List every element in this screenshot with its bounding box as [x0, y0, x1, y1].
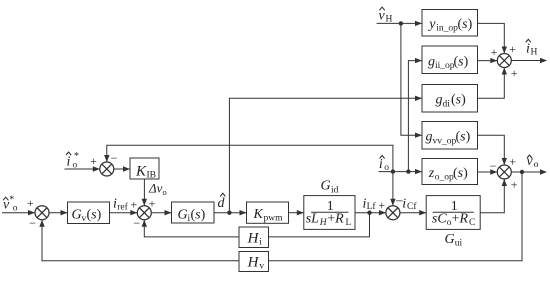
hat of i_H [526, 39, 531, 42]
wire i_o trunk up to g_ii [408, 61, 422, 172]
svg-text:(s): (s) [454, 54, 469, 69]
summing junction J2 (i_o* - i_o) [100, 162, 114, 176]
arrowhead into J1 left [28, 210, 35, 215]
arrowhead into J3 bottom [142, 220, 147, 227]
svg-text:+: + [509, 42, 516, 56]
svg-text:H: H [386, 15, 393, 25]
svg-text:H: H [247, 255, 260, 271]
wire g_ii output to J5 left [478, 60, 498, 62]
svg-text:i: i [67, 155, 71, 170]
svg-text:+: + [130, 197, 137, 211]
arrowhead into y_in [415, 21, 422, 26]
block 1/(sC_o+R_C) capacitor [426, 196, 480, 230]
arrowhead into g_di [415, 96, 422, 101]
svg-text:d: d [218, 196, 226, 211]
arrowhead into G_v [61, 210, 68, 215]
svg-text:i: i [379, 157, 383, 172]
svg-text:di: di [443, 99, 451, 109]
svg-text:o: o [73, 161, 78, 171]
arrowhead into J3 left [130, 210, 137, 215]
wire i_o input to z_o [379, 171, 423, 173]
arrowhead into J2 left [93, 166, 100, 171]
svg-text:+: + [511, 66, 518, 80]
svg-text:(s): (s) [191, 207, 206, 222]
svg-text:+R: +R [452, 212, 469, 227]
arrowhead into L-block [297, 210, 304, 215]
hat of i_o [380, 156, 385, 159]
arrowhead into g_vv [415, 133, 422, 138]
arrowhead v_o output [540, 169, 547, 174]
arrowhead into J4 top [390, 199, 395, 206]
svg-text:g: g [428, 54, 435, 69]
node dot i_Lf [367, 211, 371, 215]
arrowhead into g_ii [415, 58, 422, 63]
svg-text:i: i [402, 197, 406, 212]
wire i_o* input [65, 168, 100, 170]
svg-text:−: − [111, 151, 118, 165]
wire G_v to J3 (i_ref) [110, 212, 138, 214]
svg-text:C: C [469, 218, 475, 228]
wire C-block up to J6 bottom [480, 178, 504, 213]
wire J5 output i_H [511, 60, 546, 62]
svg-text:g: g [436, 93, 443, 108]
svg-text:o: o [384, 163, 389, 173]
node dot i_o trunk tee [406, 169, 410, 173]
svg-text:+: + [491, 45, 498, 59]
summing junction J1 (v_o* - H_v) [35, 206, 49, 220]
svg-text:K: K [135, 163, 147, 179]
svg-text:Lf: Lf [367, 201, 377, 212]
fraction bar L-block [311, 211, 348, 213]
svg-text:IB: IB [147, 170, 157, 180]
svg-text:Δv: Δv [148, 181, 163, 196]
block K_pwm modulator [247, 202, 289, 223]
svg-text:+R: +R [327, 212, 344, 227]
svg-text:(s): (s) [458, 17, 473, 32]
arrowhead into J1 bottom [39, 220, 44, 227]
svg-text:G: G [72, 207, 82, 222]
arrowhead into J5 bottom [502, 68, 507, 75]
svg-text:+: + [378, 198, 385, 212]
svg-text:in_op: in_op [436, 24, 458, 34]
svg-text:v: v [379, 9, 386, 24]
svg-text:g: g [426, 130, 433, 145]
wire G_i to K_pwm (d-hat) [214, 212, 247, 214]
node dot d-hat [227, 211, 231, 215]
svg-text:H: H [247, 230, 260, 246]
summing junction J3 (i_ref node) [137, 206, 151, 220]
svg-text:+: + [27, 196, 34, 210]
block z_o_op(s) U5 [422, 159, 478, 185]
wire H_v to J1 bottom [42, 220, 239, 261]
svg-text:(s): (s) [456, 130, 471, 145]
arrowhead into J6 top [502, 158, 507, 165]
wire K_IB down (Delta v_o) to J3 top [143, 179, 145, 206]
wire i_o down to J4 top [392, 172, 394, 206]
wire J4 to C-block [400, 212, 426, 214]
svg-text:sC: sC [432, 212, 447, 227]
block g_ii_op(s) U2 [422, 46, 478, 74]
arrowhead into J5 top [502, 47, 507, 54]
svg-text:v: v [259, 261, 264, 271]
svg-text:Cf: Cf [407, 201, 417, 212]
arrowhead into C-block [419, 210, 426, 215]
wire J3 to G_i [151, 212, 171, 214]
arrowhead into G_i [165, 210, 172, 215]
svg-text:i: i [259, 237, 262, 247]
arrowhead i_H output [540, 58, 547, 63]
fraction bar C-block [433, 211, 474, 213]
svg-text:+: + [149, 197, 156, 211]
svg-text:−: − [29, 216, 36, 230]
block 1/(sL_H+R_L) inductor [304, 196, 355, 230]
svg-text:H: H [531, 48, 538, 58]
svg-text:+: + [511, 177, 518, 191]
wire v_o feedback down to H_v [269, 172, 523, 261]
summing junction J6 (v_o sum) [497, 165, 511, 179]
wire J1 to G_v [49, 212, 68, 214]
hat of d [220, 193, 225, 196]
node dot v_H [399, 21, 403, 25]
svg-text:o_op: o_op [435, 173, 454, 183]
block H_i current sense [239, 227, 269, 248]
svg-text:pwm: pwm [264, 214, 284, 224]
svg-text:L: L [346, 218, 352, 228]
svg-text:vv_op: vv_op [433, 136, 457, 146]
wire L-block to J4 (i_Lf) [355, 212, 386, 214]
arrowhead into K_IB [123, 166, 130, 171]
svg-text:−: − [490, 159, 497, 173]
wire i_o feedback to J2 top [107, 145, 393, 171]
svg-text:−: − [133, 216, 140, 230]
svg-text:+: + [90, 154, 97, 168]
svg-text:(s): (s) [453, 166, 468, 181]
wire v_H input [377, 22, 422, 24]
svg-text:G: G [445, 232, 455, 247]
summing junction J4 (i_Lf - i_o) [386, 206, 400, 220]
wire i_Lf down to H_i [269, 213, 370, 237]
arrowhead into z_o [415, 169, 422, 174]
wire y_in output to J5 top [478, 23, 505, 52]
wire H_i to J3 bottom [144, 220, 239, 237]
block g_di(s) U3 [422, 85, 478, 113]
svg-text:+: + [509, 154, 516, 168]
svg-text:sL: sL [306, 212, 319, 227]
wire J6 output v_o [511, 171, 546, 173]
block G_v(s) voltage controller [68, 202, 110, 224]
node dot i_o [391, 169, 395, 173]
arrowhead into J4 left [379, 210, 386, 215]
wire g_di output up to J5 bottom [478, 68, 505, 98]
hat of v_o [527, 155, 532, 158]
hat of v_H [379, 7, 384, 10]
svg-text:o: o [163, 187, 167, 197]
svg-text:G: G [178, 207, 188, 222]
wire d-hat trunk to g_di [229, 98, 422, 212]
block H_v voltage sense [239, 252, 269, 272]
block K_IB [130, 158, 159, 179]
block G_i(s) current controller [172, 202, 215, 223]
svg-text:ref: ref [117, 202, 128, 213]
svg-text:G: G [321, 179, 331, 194]
svg-text:y: y [427, 17, 436, 32]
wire z_o output to J6 left [478, 171, 498, 173]
wire K_pwm to L-block [289, 212, 304, 214]
arrowhead into J6 bottom [502, 179, 507, 186]
summing junction J5 (i_H sum) [497, 54, 511, 68]
arrowhead into J3 top [142, 199, 147, 206]
svg-text:o: o [534, 160, 539, 170]
svg-text:ui: ui [455, 238, 463, 248]
arrowhead into J6 left [490, 169, 497, 174]
wire v_o* input [2, 212, 35, 214]
wire J2 to K_IB [114, 168, 130, 170]
svg-text:(s): (s) [87, 207, 102, 222]
svg-text:o: o [13, 204, 18, 214]
block g_vv_op(s) U4 [422, 122, 478, 150]
arrowhead into K_pwm [240, 210, 247, 215]
svg-text:id: id [331, 185, 339, 195]
svg-text:i: i [526, 42, 530, 57]
block y_in_op(s) U1 [422, 10, 478, 37]
wire v_H trunk to g_vv [401, 23, 422, 135]
node dot v_o [520, 170, 524, 174]
arrowhead into J5 left [490, 58, 497, 63]
wire g_vv output down to J6 top [478, 135, 505, 164]
hat of v_o* [3, 197, 8, 200]
svg-text:(s): (s) [451, 93, 466, 108]
hat of i_o* [66, 152, 71, 155]
svg-text:K: K [253, 207, 264, 222]
arrowhead into J2 top [104, 155, 109, 162]
svg-text:ii_op: ii_op [435, 61, 455, 71]
